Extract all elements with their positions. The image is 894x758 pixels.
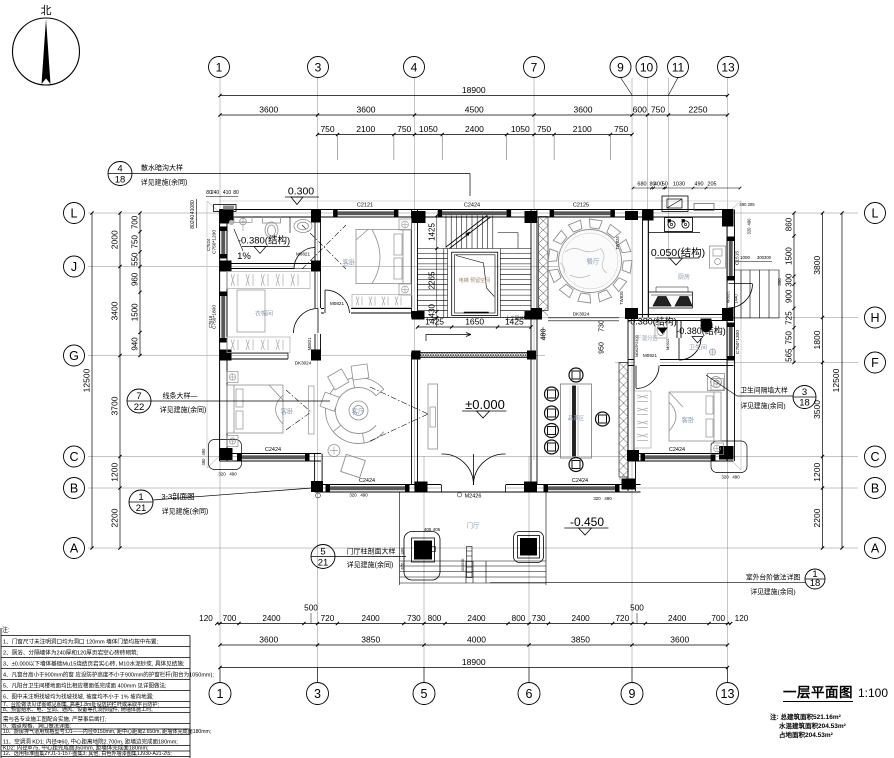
svg-text:6、图中未注明找坡均为找坡找坡, 坡度均不小于 1% 坡: 6、图中未注明找坡均为找坡找坡, 坡度均不小于 1% 坡向地漏; xyxy=(3,693,154,701)
drain below entrance xyxy=(457,493,461,497)
porch steps xyxy=(400,492,547,586)
vanity corridor xyxy=(655,322,667,338)
svg-text:12500: 12500 xyxy=(831,368,841,392)
svg-text:6: 6 xyxy=(526,687,533,701)
dim bottom row3 xyxy=(218,657,729,669)
window C750*1300 bath right xyxy=(727,323,741,361)
floor drain E bath xyxy=(710,349,716,355)
svg-text:1030: 1030 xyxy=(673,182,685,188)
svg-text:3850: 3850 xyxy=(361,635,380,645)
svg-text:500: 500 xyxy=(630,604,644,613)
svg-text:3: 3 xyxy=(802,387,807,398)
svg-text:B: B xyxy=(871,482,879,496)
svg-text:1%: 1% xyxy=(237,251,251,262)
toilet NW bath xyxy=(263,217,281,239)
extension lines top windows xyxy=(338,135,611,161)
right grid bubbles xyxy=(865,203,886,559)
svg-text:5: 5 xyxy=(421,687,428,701)
svg-text:门厅柱剖面大样: 门厅柱剖面大样 xyxy=(347,547,396,556)
sight lines hall xyxy=(370,387,428,441)
svg-text:700: 700 xyxy=(131,215,140,229)
svg-text:C: C xyxy=(870,450,879,464)
drain below B xyxy=(316,493,321,498)
svg-text:水混建筑面积204.53m²: 水混建筑面积204.53m² xyxy=(779,721,847,730)
svg-text:1200: 1200 xyxy=(812,463,822,482)
svg-text:0.050(结构): 0.050(结构) xyxy=(651,246,705,259)
svg-text:L: L xyxy=(71,207,78,221)
svg-text:7: 7 xyxy=(136,391,141,402)
svg-text:1000: 1000 xyxy=(740,255,751,260)
svg-text:490 205: 490 205 xyxy=(739,202,755,207)
bed SE bedroom xyxy=(669,379,724,455)
svg-text:C2424: C2424 xyxy=(669,447,685,453)
svg-text:750: 750 xyxy=(320,124,334,134)
svg-text:线条大样—: 线条大样— xyxy=(163,391,198,400)
svg-text:4: 4 xyxy=(117,163,122,174)
cloakroom wardrobe top xyxy=(227,272,310,289)
exterior wall top (L row) xyxy=(220,210,734,218)
wall x4 hall west xyxy=(412,353,418,485)
svg-text:2000: 2000 xyxy=(110,230,120,249)
svg-text:1:100: 1:100 xyxy=(858,686,888,700)
svg-text:占地面积204.53m²: 占地面积204.53m² xyxy=(779,730,834,739)
door M0821 bath xyxy=(294,247,315,269)
svg-text:C2125: C2125 xyxy=(573,203,589,209)
side steps dims xyxy=(734,255,782,286)
dim bottom row1 xyxy=(215,614,732,625)
svg-text:10: 10 xyxy=(640,60,654,74)
svg-text:C2424: C2424 xyxy=(265,447,281,453)
stair break line xyxy=(446,216,491,249)
svg-text:18900: 18900 xyxy=(462,85,486,95)
dim left mains xyxy=(110,211,122,549)
wall x7 stair east xyxy=(531,210,537,318)
svg-text:TW826: TW826 xyxy=(619,291,624,305)
top grid bubbles xyxy=(209,57,739,96)
svg-text:M0821: M0821 xyxy=(330,301,344,306)
svg-text:4500: 4500 xyxy=(465,105,484,115)
columns xyxy=(220,210,734,493)
level -0.380 bath NW xyxy=(238,235,290,254)
svg-text:1: 1 xyxy=(217,687,224,701)
svg-text:4000: 4000 xyxy=(467,635,486,645)
wall corridor-bath divider xyxy=(677,321,681,339)
window left cloak xyxy=(212,292,228,343)
dim top-left tiny xyxy=(190,190,239,229)
svg-text:1500: 1500 xyxy=(131,303,140,321)
dim right subs xyxy=(785,211,796,364)
callout 1/18 steps xyxy=(490,569,825,596)
svg-text:4、凡窗台高小于900mm的窗 应设防护高度不小于900mm: 4、凡窗台高小于900mm的窗 应设防护高度不小于900mm的护窗栏杆(阳台为1… xyxy=(3,671,214,679)
svg-text:C2121: C2121 xyxy=(357,203,373,209)
svg-text:700: 700 xyxy=(711,614,725,623)
svg-text:W0921: W0921 xyxy=(727,291,731,303)
svg-text:1500: 1500 xyxy=(785,247,794,265)
svg-text:M2426: M2426 xyxy=(465,494,482,500)
north arrow xyxy=(13,4,80,85)
svg-text:详见建施(余同): 详见建施(余同) xyxy=(347,560,394,569)
svg-text:3、±0.000以下墙体基础Mu15烧结页岩实心砖, M10: 3、±0.000以下墙体基础Mu15烧结页岩实心砖, M10水泥砂浆, 具体见结… xyxy=(3,660,185,668)
callout 5/21 porch column xyxy=(311,545,406,570)
svg-text:1425: 1425 xyxy=(425,317,444,327)
svg-text:-0.380(结构): -0.380(结构) xyxy=(627,316,677,327)
washer SE bath xyxy=(708,374,725,391)
svg-text:散水暗沟大样: 散水暗沟大样 xyxy=(141,163,183,172)
callout 1/21 section xyxy=(129,488,312,516)
svg-text:卫生间: 卫生间 xyxy=(689,344,707,352)
drain + shower NW bath xyxy=(229,218,247,231)
exterior wall left xyxy=(220,210,228,462)
closet NE bedroom xyxy=(352,295,412,308)
wall x9 C-B segment xyxy=(628,454,636,492)
svg-text:1050: 1050 xyxy=(511,124,530,134)
wall x7 tearoom west xyxy=(531,318,537,485)
svg-text:-0.450: -0.450 xyxy=(570,515,604,529)
svg-text:品茶区: 品茶区 xyxy=(568,414,585,422)
svg-text:3600: 3600 xyxy=(259,105,278,115)
toilet E bath xyxy=(701,319,712,333)
opening DK3024 G xyxy=(288,353,313,366)
dim right mains xyxy=(812,211,824,549)
svg-text:3: 3 xyxy=(314,687,321,701)
svg-text:F: F xyxy=(871,356,879,370)
svg-text:490: 490 xyxy=(694,182,703,188)
exterior wall right xyxy=(727,210,735,462)
svg-text:L: L xyxy=(872,207,879,221)
wall kitchen south H xyxy=(628,315,734,321)
svg-text:一层平面图: 一层平面图 xyxy=(783,685,853,700)
svg-text:C2424: C2424 xyxy=(572,478,588,484)
svg-text:720: 720 xyxy=(321,614,335,623)
svg-text:50: 50 xyxy=(662,182,668,188)
svg-text:1、门窗尺寸未注明洞口均为洞口 120mm 墙体门垫均按中: 1、门窗尺寸未注明洞口均为洞口 120mm 墙体门垫均按中布置; xyxy=(3,638,159,646)
svg-text:电梯 预留空间: 电梯 预留空间 xyxy=(459,277,490,284)
svg-text:750: 750 xyxy=(397,124,411,134)
svg-text:2400: 2400 xyxy=(465,124,484,134)
dim right 12500 xyxy=(831,211,844,549)
svg-text:80: 80 xyxy=(190,223,196,229)
svg-text:C2424: C2424 xyxy=(464,203,480,209)
svg-text:800: 800 xyxy=(512,614,526,623)
svg-text:C2424: C2424 xyxy=(359,478,375,484)
black oval column bath E xyxy=(702,319,713,332)
svg-text:1440: 1440 xyxy=(734,294,739,304)
svg-text:670: 670 xyxy=(400,562,405,570)
svg-text:950: 950 xyxy=(599,342,606,354)
svg-text:750: 750 xyxy=(651,105,665,115)
wall x9 H-C xyxy=(628,318,634,457)
dim 18900 top xyxy=(218,85,729,97)
svg-text:21: 21 xyxy=(136,503,147,514)
svg-text:750: 750 xyxy=(537,124,551,134)
wall B row xyxy=(315,485,641,493)
svg-text:240: 240 xyxy=(211,190,220,196)
wall J row bath xyxy=(226,264,321,269)
svg-text:详见建施(余同): 详见建施(余同) xyxy=(162,507,209,516)
svg-text:M0921: M0921 xyxy=(643,353,657,358)
svg-text:9: 9 xyxy=(629,687,636,701)
svg-text:客卧: 客卧 xyxy=(281,407,295,416)
kitchen counter top xyxy=(649,218,701,233)
svg-text:厨房: 厨房 xyxy=(678,273,690,281)
svg-text:-0.380(结构): -0.380(结构) xyxy=(676,325,726,336)
svg-text:13: 13 xyxy=(721,687,735,701)
svg-text:960: 960 xyxy=(131,272,140,286)
svg-text:客卧: 客卧 xyxy=(343,258,357,267)
svg-text:H: H xyxy=(870,311,879,325)
level -0.380 bath E xyxy=(676,325,726,343)
grid lines xyxy=(88,78,858,682)
svg-text:0.300: 0.300 xyxy=(288,186,314,198)
wall G crosshatch stair south xyxy=(415,353,535,358)
hatch strip stair-dining xyxy=(539,217,549,316)
svg-text:10、厨房排气道用规格型号:D1——内径Φ150mm, 距中: 10、厨房排气道用规格型号:D1——内径Φ150mm, 距中心距离2.650m,… xyxy=(3,728,211,735)
callout 7/22 lines xyxy=(127,389,330,414)
svg-text:3: 3 xyxy=(315,60,322,74)
svg-text:干湿分区: 干湿分区 xyxy=(636,334,659,342)
window C2424 SE xyxy=(641,447,716,461)
svg-text:750: 750 xyxy=(131,235,140,249)
apron outline xyxy=(207,201,741,470)
title yiceng pingmiantu xyxy=(783,685,888,702)
callout 4/18 sanshui xyxy=(108,162,470,197)
svg-text:18: 18 xyxy=(115,174,126,185)
general notes table xyxy=(1,626,214,758)
stair dims inner xyxy=(427,214,438,327)
svg-text:2400: 2400 xyxy=(361,614,380,623)
opening DK3024 tearoom north xyxy=(548,312,619,321)
svg-text:客卧: 客卧 xyxy=(682,415,696,424)
svg-text:3850: 3850 xyxy=(571,635,590,645)
svg-text:490: 490 xyxy=(201,458,206,466)
svg-text:1: 1 xyxy=(138,492,143,503)
svg-text:5、凡阳台卫生间楼地面均比相应楼面低完成面 400mm 见: 5、凡阳台卫生间楼地面均比相应楼面低完成面 400mm 见详图做法; xyxy=(3,682,167,690)
svg-text:22: 22 xyxy=(134,402,145,413)
dim 480 xyxy=(541,327,548,340)
svg-text:客厅: 客厅 xyxy=(352,407,366,416)
svg-text:730: 730 xyxy=(407,614,421,623)
wall C row SW room xyxy=(220,454,322,462)
svg-text:800: 800 xyxy=(428,614,442,623)
svg-text:C: C xyxy=(69,450,78,464)
svg-text:5: 5 xyxy=(320,546,325,557)
svg-text:120: 120 xyxy=(199,614,213,623)
svg-text:3400: 3400 xyxy=(110,301,120,320)
cloakroom table xyxy=(237,290,265,332)
svg-text:C7524: C7524 xyxy=(206,238,211,251)
svg-text:9: 9 xyxy=(617,60,624,74)
door M0821 bedroom1 xyxy=(324,290,351,314)
sink NW bath xyxy=(294,220,312,233)
svg-text:2100: 2100 xyxy=(573,124,592,134)
svg-text:室外台阶做法详图: 室外台阶做法详图 xyxy=(746,573,801,582)
svg-text:11: 11 xyxy=(672,60,685,74)
svg-text:3500: 3500 xyxy=(812,400,822,419)
svg-text:详见建施(余同): 详见建施(余同) xyxy=(740,401,785,410)
dim bottom row2 xyxy=(218,635,729,647)
svg-text:2250: 2250 xyxy=(689,105,708,115)
svg-text:C750*1300: C750*1300 xyxy=(735,330,741,354)
svg-text:上二层5步: 上二层5步 xyxy=(506,315,527,322)
sight lines SW bedroom xyxy=(286,390,311,430)
svg-text:1200: 1200 xyxy=(110,463,120,482)
wall bath right x3 xyxy=(315,210,321,269)
svg-text:北: 北 xyxy=(41,4,52,17)
slope leader 1% xyxy=(234,229,251,262)
svg-text:725: 725 xyxy=(785,311,794,325)
svg-text:注:: 注: xyxy=(2,626,10,634)
svg-text:1425: 1425 xyxy=(427,223,436,241)
stair treads top flight xyxy=(418,216,532,249)
svg-text:8、预留给水、电、空调、通风、设备等孔洞预埋件, 随墙体施工: 8、预留给水、电、空调、通风、设备等孔洞预埋件, 随墙体施工时, xyxy=(3,706,153,713)
window C2121 top xyxy=(333,203,398,218)
svg-text:940: 940 xyxy=(131,337,140,351)
svg-text:750: 750 xyxy=(614,124,628,134)
window C2424 top xyxy=(438,203,511,218)
dim 500 labels xyxy=(304,604,644,624)
svg-text:3-3剖面图: 3-3剖面图 xyxy=(161,491,194,501)
kitchen side door opening xyxy=(728,283,753,309)
area notes right xyxy=(770,712,847,739)
window C2424 SW xyxy=(237,447,310,461)
svg-text:700: 700 xyxy=(223,614,237,623)
svg-text:900: 900 xyxy=(785,289,794,303)
svg-text:B: B xyxy=(70,482,78,496)
svg-text:TW824: TW824 xyxy=(615,236,620,250)
svg-text:A: A xyxy=(871,542,880,556)
window C1515 kitchen right xyxy=(727,237,741,281)
window C750*1200 left xyxy=(212,227,228,259)
svg-text:490: 490 xyxy=(747,218,752,226)
svg-text:3600: 3600 xyxy=(259,635,278,645)
svg-text:490: 490 xyxy=(229,472,237,477)
svg-text:详见建施(余同): 详见建施(余同) xyxy=(750,587,795,596)
svg-text:注: 总建筑面积521.16m²: 注: 总建筑面积521.16m² xyxy=(770,712,842,721)
svg-text:3600: 3600 xyxy=(670,635,689,645)
svg-text:550: 550 xyxy=(131,252,140,266)
svg-text:405: 405 xyxy=(400,547,405,555)
svg-text:详见建施(余同): 详见建施(余同) xyxy=(141,178,188,187)
svg-text:410: 410 xyxy=(223,190,232,196)
dim left subs xyxy=(131,211,142,357)
stair bottom edge xyxy=(412,317,538,319)
svg-text:480: 480 xyxy=(541,329,548,341)
svg-text:600: 600 xyxy=(633,105,647,115)
svg-text:720: 720 xyxy=(616,614,630,623)
kitchen lower counter sink xyxy=(649,287,693,308)
svg-text:M0921: M0921 xyxy=(666,338,670,350)
tv cabinet SW bedroom xyxy=(309,386,315,434)
svg-text:7: 7 xyxy=(531,60,538,74)
level pm0.000 hall xyxy=(462,397,506,418)
wall x3 J-G xyxy=(315,269,321,360)
svg-text:详见建施(余同): 详见建施(余同) xyxy=(160,405,207,414)
svg-text:750: 750 xyxy=(785,331,794,345)
svg-text:500: 500 xyxy=(304,604,318,613)
svg-text:门厅: 门厅 xyxy=(467,521,481,530)
wall G row left xyxy=(220,353,322,359)
door M0921 bedroomSE xyxy=(634,353,660,389)
svg-text:80: 80 xyxy=(190,200,196,206)
svg-text:12、选用标准图集2YJ1-1-157-图集3; 其他, 白: 12、选用标准图集2YJ1-1-157-图集3; 其他, 白色外墙漆图集1J93… xyxy=(3,750,172,757)
wall step x3 C-B xyxy=(315,454,323,492)
side steps east xyxy=(734,270,780,318)
svg-text:490: 490 xyxy=(732,475,740,480)
sofa living room xyxy=(320,364,384,478)
svg-text:DK3024: DK3024 xyxy=(573,312,590,317)
tea table xyxy=(561,384,592,458)
hatch strip tearoom east xyxy=(619,363,628,480)
svg-text:12500: 12500 xyxy=(82,368,92,392)
svg-text:2、厕浴、分隔墙体为240厚和120厚页岩空心砖砖砌筑;: 2、厕浴、分隔墙体为240厚和120厚页岩空心砖砖砌筑; xyxy=(3,649,139,657)
level -0.450 porch xyxy=(564,515,608,535)
svg-text:300300: 300300 xyxy=(757,255,772,260)
svg-text:21: 21 xyxy=(318,557,329,568)
flue box top-left xyxy=(214,205,237,212)
svg-text:2100: 2100 xyxy=(356,124,375,134)
stair up arrow hook xyxy=(426,333,471,342)
window C2424 B-left xyxy=(326,478,410,492)
svg-text:303030: 303030 xyxy=(461,559,465,572)
wall bedroom1 south xyxy=(321,309,412,314)
svg-text:2200: 2200 xyxy=(110,508,120,527)
svg-text:G: G xyxy=(69,349,79,363)
svg-text:M0821: M0821 xyxy=(296,252,310,257)
tea chairs xyxy=(545,368,610,472)
entrance M2426 double door xyxy=(441,454,506,500)
svg-text:2400: 2400 xyxy=(262,614,281,623)
svg-text:3600: 3600 xyxy=(357,105,376,115)
level 0.050 kitchen xyxy=(651,246,705,265)
kitchen right units xyxy=(710,246,726,268)
svg-text:1: 1 xyxy=(216,60,223,74)
svg-text:3700: 3700 xyxy=(110,396,120,415)
dim left 12500 xyxy=(82,211,94,549)
door M0921 bath2 xyxy=(679,338,701,360)
tv cabinet hall xyxy=(428,384,438,449)
window C2424 B-right xyxy=(544,478,620,492)
svg-text:120: 120 xyxy=(735,614,749,623)
svg-text:300: 300 xyxy=(777,278,782,286)
svg-text:1050: 1050 xyxy=(419,124,438,134)
dim stair bottom xyxy=(416,317,533,329)
svg-text:490: 490 xyxy=(604,496,612,501)
door M0821 cloak xyxy=(294,308,322,350)
svg-text:2400: 2400 xyxy=(467,614,486,623)
stair right flight xyxy=(498,233,531,318)
svg-text:730: 730 xyxy=(599,320,606,332)
svg-text:-0.380(结构): -0.380(结构) xyxy=(238,235,290,247)
svg-text:205: 205 xyxy=(707,182,716,188)
svg-text:18: 18 xyxy=(810,578,821,589)
level 0.300 xyxy=(285,186,319,205)
svg-text:410: 410 xyxy=(190,206,196,215)
wall x4 stair west xyxy=(412,210,418,318)
cloakroom wardrobe bottom xyxy=(227,337,290,353)
wall F row xyxy=(628,360,734,366)
svg-text:11、空调洞 KD1: 内径Φ60, 中心距离地院2.700: 11、空调洞 KD1: 内径Φ60, 中心距离地院2.700m, 距墙边完成面1… xyxy=(3,738,178,746)
bottom grid bubbles xyxy=(209,668,739,705)
svg-text:2200: 2200 xyxy=(812,508,822,527)
svg-text:3800: 3800 xyxy=(812,256,822,275)
porch center strip xyxy=(461,547,472,578)
wall C row SE room xyxy=(628,454,734,462)
svg-text:565: 565 xyxy=(785,348,794,362)
svg-text:490: 490 xyxy=(201,448,206,456)
svg-text:320: 320 xyxy=(218,472,226,477)
closet SE bedroom xyxy=(635,391,652,448)
svg-text:2400: 2400 xyxy=(571,614,590,623)
